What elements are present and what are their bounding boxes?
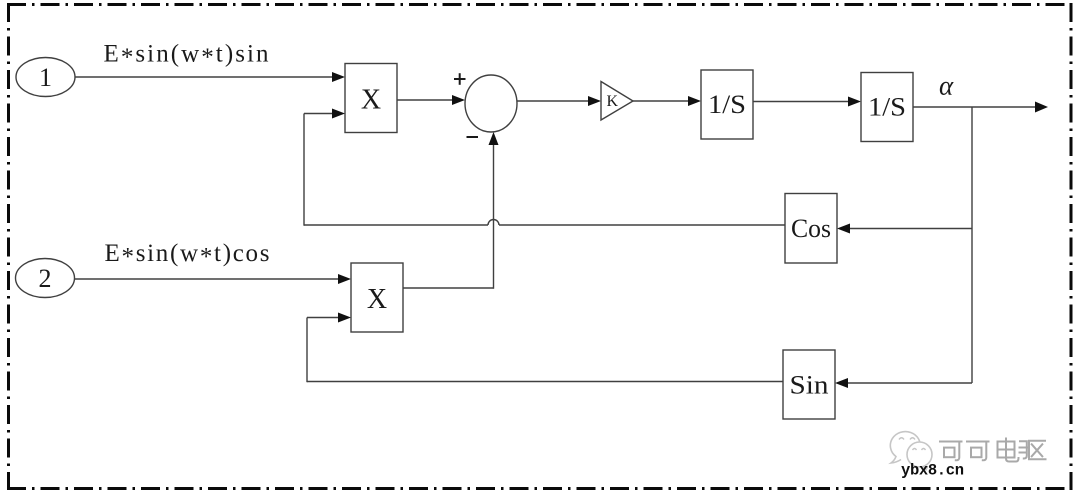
wire integrator U1 to integrator U2 bbox=[753, 97, 861, 107]
svg-text:2: 2 bbox=[39, 264, 52, 293]
minus sign bbox=[467, 136, 479, 138]
wire Sin output to X2 lower input bbox=[307, 313, 783, 383]
multiplier X2 bbox=[351, 263, 403, 332]
svg-text:1/S: 1/S bbox=[708, 90, 746, 119]
cos block U4 bbox=[785, 194, 837, 264]
watermark text kekediaqu bbox=[940, 439, 1046, 462]
wire Cos output to X1 lower input with hop bbox=[304, 109, 785, 226]
input port 1 bbox=[16, 58, 75, 97]
wire gain K to integrator U1 bbox=[633, 96, 701, 106]
integrator U1 bbox=[701, 70, 753, 139]
sin block U5 bbox=[783, 350, 835, 419]
frame bottom edge bbox=[7, 487, 1072, 490]
frame top edge bbox=[7, 3, 1072, 6]
plus sign bbox=[454, 73, 466, 85]
svg-text:K: K bbox=[607, 93, 619, 110]
svg-text:E*sin(w*t)cos: E*sin(w*t)cos bbox=[105, 240, 270, 271]
svg-text:X: X bbox=[361, 85, 381, 116]
svg-text:α: α bbox=[939, 71, 954, 101]
svg-text:Sin: Sin bbox=[790, 371, 829, 400]
wire bus to Sin block bbox=[835, 378, 972, 388]
wire port2 to multiplier X2 bbox=[75, 274, 352, 284]
svg-text:X: X bbox=[367, 284, 387, 315]
gain K bbox=[601, 82, 633, 121]
summing junction U3 bbox=[465, 75, 517, 132]
frame left edge bbox=[7, 3, 10, 490]
wire feedback bus vertical bbox=[971, 107, 973, 383]
wire X2 output up to summing junction minus input bbox=[403, 132, 499, 289]
svg-text:ybx8.cn: ybx8.cn bbox=[901, 462, 964, 480]
watermark wechat icon bbox=[890, 432, 932, 470]
svg-text:1/S: 1/S bbox=[868, 93, 906, 122]
wire U2 output to output arrow bbox=[913, 102, 1048, 113]
integrator U2 bbox=[861, 73, 913, 142]
svg-text:1: 1 bbox=[39, 63, 52, 92]
input port 2 bbox=[16, 259, 75, 298]
frame right edge bbox=[1070, 3, 1073, 490]
wire port1 to multiplier X1 bbox=[75, 72, 345, 82]
wire summing junction to gain K bbox=[517, 96, 601, 106]
multiplier X1 bbox=[345, 64, 397, 133]
svg-text:Cos: Cos bbox=[791, 214, 831, 243]
wire X1 to summing junction bbox=[397, 95, 465, 105]
svg-text:E*sin(w*t)sin: E*sin(w*t)sin bbox=[104, 41, 270, 72]
wire bus to Cos block bbox=[837, 224, 972, 234]
